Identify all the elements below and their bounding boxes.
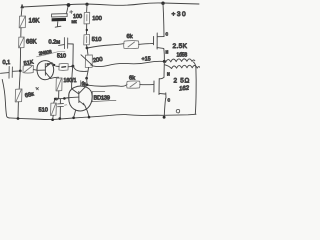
wire feedback node down to Q2 base xyxy=(72,67,79,94)
svg-text:51K: 51K xyxy=(23,60,34,68)
capacitor C4 emitter bypass xyxy=(59,99,61,104)
wire to R8 xyxy=(87,44,124,48)
svg-text:2 5Ω: 2 5Ω xyxy=(174,78,190,85)
label C4 value squiggle xyxy=(64,105,67,106)
node gnd2 xyxy=(51,118,54,121)
wire xyxy=(56,65,73,68)
wire drain2 column xyxy=(160,62,165,79)
mosfet V2 gate bar xyxy=(153,81,155,92)
svg-text:68к: 68к xyxy=(24,91,35,99)
node b2 xyxy=(86,83,89,86)
wire: left column top xyxy=(20,8,23,17)
wire xyxy=(34,69,38,72)
wire drain1 column xyxy=(163,4,164,37)
wire R10 to gate2 xyxy=(140,84,153,86)
node e1 xyxy=(63,97,66,100)
svg-text:0,1: 0,1 xyxy=(3,60,11,66)
svg-text:и: и xyxy=(167,72,170,78)
mosfet V1 channel xyxy=(156,33,158,49)
svg-text:1б58: 1б58 xyxy=(177,53,188,59)
svg-text:510: 510 xyxy=(92,37,102,43)
node top rail c xyxy=(161,2,164,5)
label 162 xyxy=(179,85,190,92)
node top rail a xyxy=(67,3,71,7)
svg-text:100: 100 xyxy=(92,16,102,22)
resistor R6 100 xyxy=(84,12,90,24)
label бз box xyxy=(81,80,88,86)
label Q2 BD139 xyxy=(92,91,116,102)
wire xyxy=(86,78,88,84)
transistor Q2 symbol xyxy=(66,96,79,99)
transistor Q1 circle xyxy=(37,61,54,80)
arrow on emitter node xyxy=(56,98,59,101)
label Q1 2N608 diagonal xyxy=(38,49,52,56)
svg-text:бз: бз xyxy=(82,81,86,86)
node b1 xyxy=(85,77,88,80)
node top rail b xyxy=(85,3,88,6)
mosfet V1 drain tap xyxy=(158,36,164,38)
wire pot top xyxy=(86,48,89,55)
svg-text:+30: +30 xyxy=(172,11,188,18)
inductor L2 winding lower xyxy=(165,65,200,69)
wire xyxy=(19,72,20,90)
resistor R1 16K xyxy=(19,16,25,28)
node base T1 xyxy=(19,70,22,73)
wire xyxy=(19,48,21,71)
node r7 top xyxy=(86,29,88,31)
resistor R7 510 xyxy=(84,35,90,45)
wire Q2 emitter to rail xyxy=(85,105,89,116)
wire to R10 6k lower xyxy=(88,84,127,86)
wire input ground lead xyxy=(2,80,9,118)
resistor R12 160 xyxy=(56,78,62,91)
wire xyxy=(86,45,88,48)
wire Q2 bottom left leg xyxy=(74,110,76,117)
svg-text:BD139: BD139 xyxy=(94,96,110,102)
wire xyxy=(17,102,19,119)
wire xyxy=(86,24,88,35)
wire pot bottom / node chain xyxy=(73,67,87,72)
svg-text:6k: 6k xyxy=(127,34,133,40)
node center tap xyxy=(163,60,166,63)
node feedback xyxy=(71,65,74,68)
wire vertical to C2 xyxy=(72,44,74,65)
svg-text:162: 162 xyxy=(179,85,190,92)
node gnd4 xyxy=(72,116,75,119)
mosfet V1 gate bar xyxy=(153,36,155,44)
node gnd6 xyxy=(163,116,166,119)
node e0 xyxy=(54,98,57,101)
wire cap stem xyxy=(56,22,58,27)
node gnd3 xyxy=(58,117,61,120)
node gnd1 xyxy=(17,117,20,120)
svg-text:0.2м: 0.2м xyxy=(49,40,61,46)
svg-text:200: 200 xyxy=(93,57,103,64)
wire xyxy=(20,28,22,37)
wire xyxy=(58,91,60,99)
svg-text:и: и xyxy=(166,50,169,56)
svg-text:160/1: 160/1 xyxy=(64,78,77,84)
inductor L1 winding upper xyxy=(166,59,195,63)
svg-text:c: c xyxy=(166,32,169,38)
node Q1 collector xyxy=(53,64,55,66)
wire: bottom rail xyxy=(10,114,197,119)
svg-text:16K: 16K xyxy=(29,18,41,25)
wire Q1 collector to node xyxy=(52,63,55,66)
svg-text:2.5K: 2.5K xyxy=(173,43,188,50)
transistor Q1 symbol xyxy=(37,69,45,71)
arrow junction top-left xyxy=(21,4,24,8)
transistor Q2 circle xyxy=(69,86,92,111)
mosfet V2 channel xyxy=(158,79,160,95)
resistor R2 68K xyxy=(19,37,25,48)
svg-text:510: 510 xyxy=(39,108,48,114)
capacitor C3 100мк electrolytic top xyxy=(66,5,68,13)
mosfet V1 source tap xyxy=(157,47,164,50)
wire xyxy=(13,70,21,72)
svg-text:+15: +15 xyxy=(142,57,151,63)
wire Q1 emitter down xyxy=(50,77,58,78)
output terminal o xyxy=(176,109,179,113)
svg-text:510: 510 xyxy=(57,54,66,60)
wire source1 down xyxy=(163,49,166,61)
svg-text:68K: 68K xyxy=(26,40,37,46)
wire xyxy=(86,5,88,13)
node gnd5 xyxy=(88,116,91,119)
wire Q2 collector up xyxy=(84,85,87,88)
wire node to Q2 base xyxy=(55,98,69,99)
wire source2 down xyxy=(164,98,165,117)
potentiometer R9 200 xyxy=(85,55,92,68)
mosfet V2 source tap xyxy=(159,92,165,95)
wire wiper +15 line xyxy=(93,61,164,66)
wire: top +30 rail xyxy=(22,3,199,7)
svg-text:c: c xyxy=(168,98,171,104)
node divider xyxy=(86,47,89,50)
wire R8 to gate1 xyxy=(139,43,154,44)
wire right edge down xyxy=(193,62,196,68)
resistor R3 68K* xyxy=(15,89,22,102)
resistor R4 51K xyxy=(23,60,34,68)
